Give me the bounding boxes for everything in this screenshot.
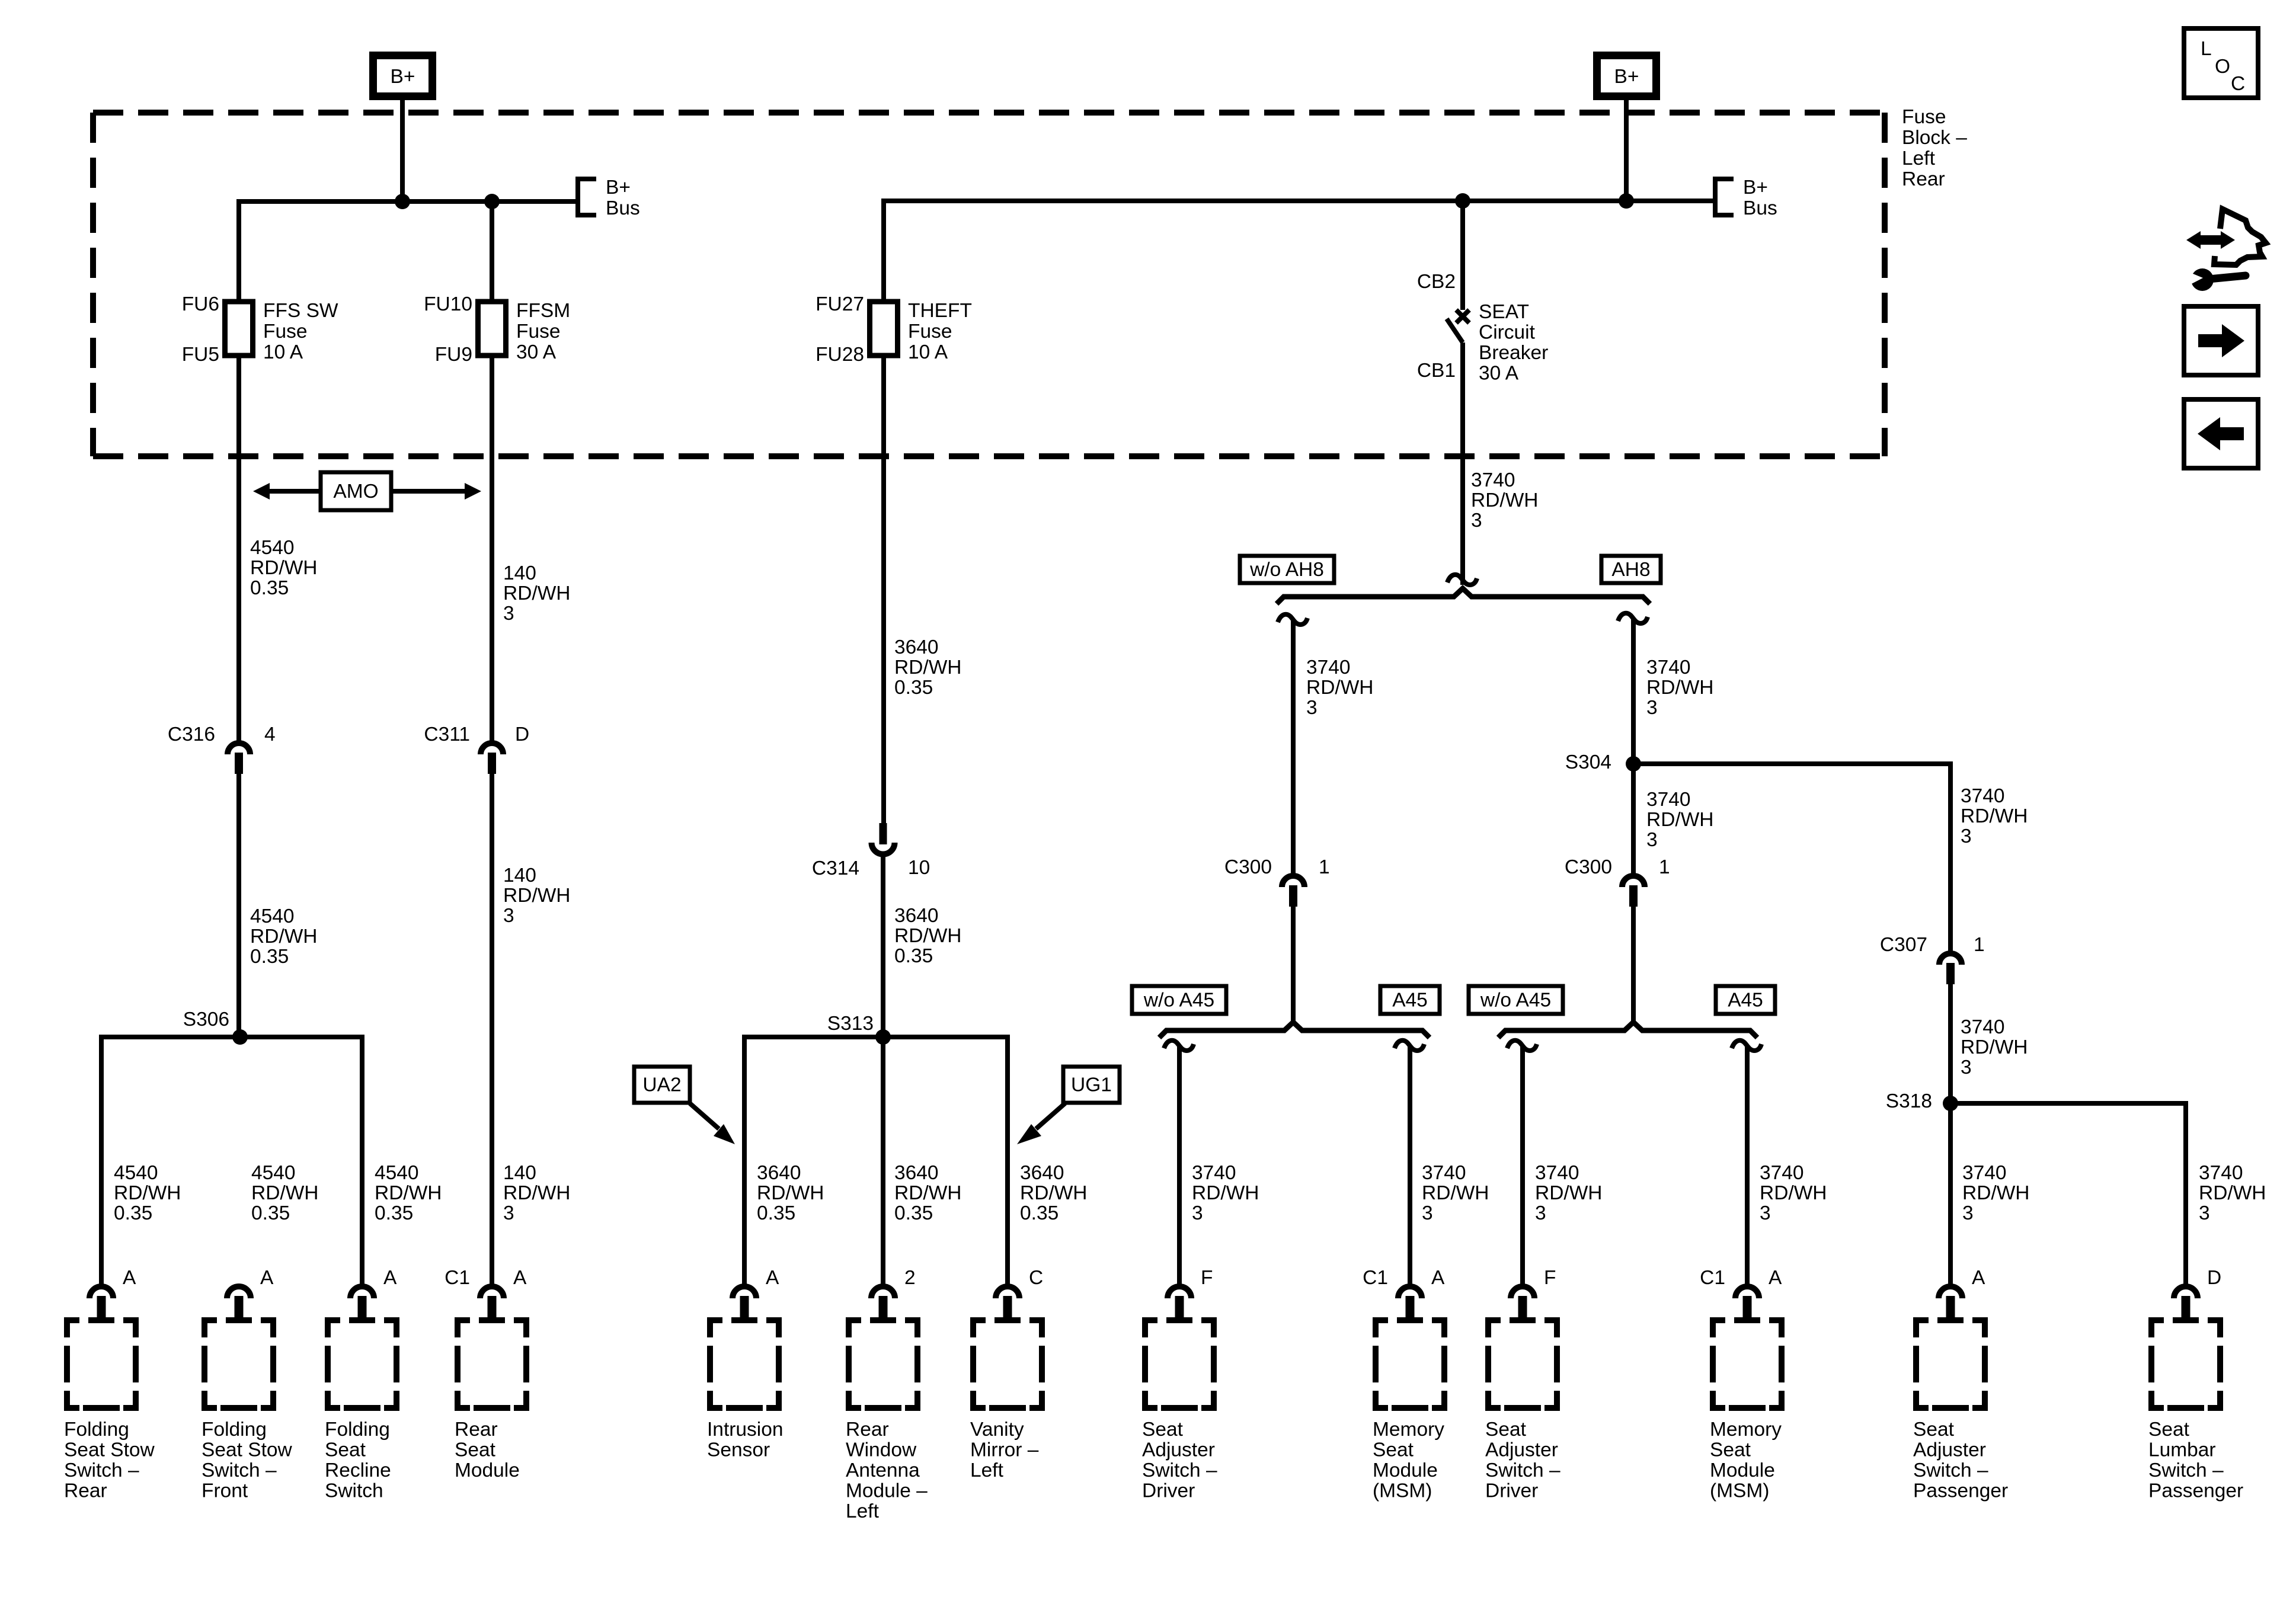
connector + Rear Window Antenna Module - Left bbox=[871, 1286, 895, 1298]
connector + Folding Seat Stow Switch - Front bbox=[227, 1286, 251, 1298]
svg-text:Seat: Seat bbox=[2148, 1419, 2190, 1441]
svg-text:Memory: Memory bbox=[1373, 1419, 1444, 1441]
svg-text:C316: C316 bbox=[168, 724, 215, 745]
connector C300 (w/o AH8) pin 1 bbox=[1282, 876, 1304, 887]
svg-text:A: A bbox=[513, 1267, 527, 1289]
svg-text:RD/WH: RD/WH bbox=[1471, 489, 1539, 511]
wire bus2 corner down to THEFT fuse bbox=[881, 199, 886, 302]
connector C311 pin D bbox=[481, 743, 503, 754]
svg-text:Passenger: Passenger bbox=[2148, 1480, 2243, 1502]
vehicle service icon (car outline, double arrow, wrench) bbox=[2214, 209, 2266, 265]
svg-text:140: 140 bbox=[503, 562, 536, 584]
connector C307 pin 1 bbox=[1939, 953, 1962, 965]
svg-text:S313: S313 bbox=[827, 1013, 874, 1035]
svg-text:F: F bbox=[1201, 1267, 1213, 1289]
svg-text:3: 3 bbox=[1535, 1202, 1546, 1224]
svg-text:C: C bbox=[1029, 1267, 1043, 1289]
svg-text:A: A bbox=[1972, 1267, 1985, 1289]
B+ Bus terminal 2 bbox=[1715, 179, 1734, 215]
AMO option box with arrows bbox=[253, 483, 270, 500]
svg-text:3740: 3740 bbox=[1306, 657, 1351, 678]
wire S313 left branch (intrusion sensor) bbox=[742, 1035, 747, 1286]
svg-text:Antenna: Antenna bbox=[846, 1459, 920, 1481]
svg-text:RD/WH: RD/WH bbox=[1961, 1036, 2028, 1058]
svg-text:10 A: 10 A bbox=[908, 341, 948, 363]
svg-text:CB1: CB1 bbox=[1417, 360, 1456, 382]
splice S304 bbox=[1626, 756, 1641, 772]
svg-text:RD/WH: RD/WH bbox=[251, 1182, 319, 1204]
svg-text:3: 3 bbox=[1646, 829, 1658, 851]
svg-text:A: A bbox=[766, 1267, 779, 1289]
svg-text:RD/WH: RD/WH bbox=[2199, 1182, 2266, 1204]
svg-text:FFSM: FFSM bbox=[516, 300, 570, 322]
svg-text:RD/WH: RD/WH bbox=[1306, 677, 1374, 699]
svg-text:3740: 3740 bbox=[1192, 1162, 1236, 1184]
svg-text:Seat Stow: Seat Stow bbox=[64, 1439, 155, 1461]
wire S313 right branch (vanity mirror) bbox=[1005, 1035, 1010, 1286]
B+ Bus terminal 1 bbox=[578, 179, 596, 215]
option brace A45 split driver bbox=[1159, 1022, 1430, 1038]
wire C300 left to A45 brace bbox=[1291, 905, 1296, 1025]
svg-text:Driver: Driver bbox=[1142, 1480, 1195, 1502]
svg-text:3740: 3740 bbox=[1471, 469, 1515, 491]
svg-text:3: 3 bbox=[1306, 697, 1318, 719]
connector C300 (AH8) pin 1 bbox=[1622, 876, 1645, 887]
svg-text:A: A bbox=[260, 1267, 274, 1289]
svg-text:140: 140 bbox=[503, 865, 536, 886]
svg-text:4540: 4540 bbox=[250, 537, 295, 559]
svg-text:4540: 4540 bbox=[375, 1162, 419, 1184]
svg-text:RD/WH: RD/WH bbox=[894, 1182, 962, 1204]
svg-text:w/o A45: w/o A45 bbox=[1480, 990, 1551, 1012]
svg-text:A45: A45 bbox=[1728, 990, 1763, 1012]
svg-text:0.35: 0.35 bbox=[894, 677, 933, 699]
svg-text:1: 1 bbox=[1659, 856, 1670, 878]
svg-text:Seat: Seat bbox=[325, 1439, 366, 1461]
svg-text:Front: Front bbox=[202, 1480, 248, 1502]
svg-text:0.35: 0.35 bbox=[114, 1202, 152, 1224]
svg-text:Breaker: Breaker bbox=[1479, 342, 1548, 364]
svg-text:Circuit: Circuit bbox=[1479, 322, 1536, 344]
svg-text:10 A: 10 A bbox=[263, 341, 303, 363]
svg-text:RD/WH: RD/WH bbox=[375, 1182, 442, 1204]
svg-text:CB2: CB2 bbox=[1417, 271, 1456, 293]
junction dot B+1/bus bbox=[395, 194, 410, 209]
svg-text:A45: A45 bbox=[1392, 990, 1428, 1012]
svg-text:0.35: 0.35 bbox=[757, 1202, 795, 1224]
svg-text:Module –: Module – bbox=[846, 1480, 928, 1502]
connector + Seat Adjuster Switch - Driver 2 bbox=[1511, 1286, 1534, 1298]
svg-text:S304: S304 bbox=[1565, 751, 1611, 773]
wire break squiggle w/o AH8 branch bbox=[1278, 614, 1307, 625]
svg-text:Fuse: Fuse bbox=[1902, 106, 1946, 128]
svg-text:RD/WH: RD/WH bbox=[1962, 1182, 2030, 1204]
svg-text:3640: 3640 bbox=[894, 905, 939, 927]
svg-text:RD/WH: RD/WH bbox=[503, 582, 571, 604]
svg-text:3: 3 bbox=[1471, 510, 1482, 532]
wire bus1 drop to FU10 bbox=[490, 201, 494, 302]
wire bus2 to circuit breaker contact bbox=[1460, 201, 1465, 310]
svg-text:w/o AH8: w/o AH8 bbox=[1249, 559, 1324, 581]
svg-text:Module: Module bbox=[1710, 1459, 1775, 1481]
svg-text:0.35: 0.35 bbox=[894, 1202, 933, 1224]
wire w/o AH8 branch down to C300 bbox=[1291, 619, 1296, 873]
svg-text:C1: C1 bbox=[445, 1267, 470, 1289]
svg-text:Left: Left bbox=[970, 1459, 1004, 1481]
svg-text:O: O bbox=[2215, 56, 2230, 78]
svg-text:RD/WH: RD/WH bbox=[1646, 809, 1714, 831]
svg-text:3: 3 bbox=[503, 603, 514, 625]
svg-text:RD/WH: RD/WH bbox=[250, 926, 318, 948]
svg-text:3740: 3740 bbox=[1646, 657, 1691, 678]
svg-text:L: L bbox=[2201, 38, 2212, 60]
svg-text:Rear: Rear bbox=[64, 1480, 107, 1502]
svg-text:RD/WH: RD/WH bbox=[894, 657, 962, 678]
wire C307 to S318 bbox=[1948, 982, 1953, 1103]
wire break squiggle above AH8 brace bbox=[1447, 575, 1477, 585]
LOC legend box bbox=[2184, 28, 2258, 98]
svg-text:0.35: 0.35 bbox=[375, 1202, 413, 1224]
wire break squiggle AH8 branch bbox=[1618, 613, 1648, 623]
svg-text:Fuse: Fuse bbox=[516, 321, 560, 343]
wire seat adjuster driver 2 down bbox=[1520, 1046, 1525, 1286]
svg-text:Module: Module bbox=[455, 1459, 520, 1481]
svg-text:(MSM): (MSM) bbox=[1373, 1480, 1432, 1502]
svg-text:RD/WH: RD/WH bbox=[114, 1182, 181, 1204]
svg-text:Adjuster: Adjuster bbox=[1913, 1439, 1986, 1461]
svg-text:D: D bbox=[2207, 1267, 2221, 1289]
svg-text:Recline: Recline bbox=[325, 1459, 391, 1481]
svg-text:RD/WH: RD/WH bbox=[1422, 1182, 1489, 1204]
svg-text:F: F bbox=[1544, 1267, 1556, 1289]
svg-text:1: 1 bbox=[1974, 934, 1985, 956]
junction dot circuit breaker drop bbox=[1455, 193, 1470, 209]
svg-text:A: A bbox=[383, 1267, 397, 1289]
svg-text:0.35: 0.35 bbox=[250, 577, 289, 599]
wire break squiggle w/o A45 driver bbox=[1164, 1041, 1194, 1051]
connector C1 + Memory Seat Module (MSM) 2 bbox=[1735, 1286, 1759, 1298]
svg-text:0.35: 0.35 bbox=[250, 946, 289, 968]
fuse FU27/FU28 THEFT 10A bbox=[870, 302, 898, 356]
svg-text:FU27: FU27 bbox=[816, 293, 864, 315]
wire FU10 fuse to C311 bbox=[490, 356, 494, 741]
connector + Seat Adjuster Switch - Passenger bbox=[1939, 1286, 1962, 1298]
svg-text:C300: C300 bbox=[1565, 856, 1612, 878]
svg-text:3640: 3640 bbox=[894, 636, 939, 658]
junction dot FFSM fuse drop bbox=[484, 194, 500, 209]
svg-text:4540: 4540 bbox=[251, 1162, 296, 1184]
svg-text:w/o A45: w/o A45 bbox=[1143, 990, 1214, 1012]
svg-text:B+: B+ bbox=[1743, 177, 1768, 199]
wire S304 down to C300 right bbox=[1631, 764, 1636, 873]
svg-text:3640: 3640 bbox=[894, 1162, 939, 1184]
svg-text:A: A bbox=[1431, 1267, 1445, 1289]
svg-text:AH8: AH8 bbox=[1611, 559, 1650, 581]
connector + Seat Lumbar Switch - Passenger bbox=[2174, 1286, 2198, 1298]
svg-text:FU5: FU5 bbox=[182, 344, 219, 366]
connector + Intrusion Sensor bbox=[733, 1286, 756, 1298]
svg-text:S306: S306 bbox=[183, 1009, 229, 1030]
svg-text:3640: 3640 bbox=[1020, 1162, 1064, 1184]
svg-text:Bus: Bus bbox=[1743, 197, 1777, 219]
svg-text:10: 10 bbox=[908, 857, 930, 879]
svg-text:C314: C314 bbox=[812, 857, 859, 879]
svg-text:C1: C1 bbox=[1700, 1267, 1725, 1289]
svg-text:Seat: Seat bbox=[1710, 1439, 1751, 1461]
svg-text:RD/WH: RD/WH bbox=[1961, 805, 2028, 827]
wire C316 to S306 bbox=[236, 772, 241, 1037]
svg-text:RD/WH: RD/WH bbox=[503, 885, 571, 907]
option box w/o AH8 bbox=[1240, 556, 1334, 583]
wire AH8 branch down to S304 bbox=[1631, 618, 1636, 764]
forward arrow box bbox=[2184, 306, 2258, 375]
option box w/o A45 (driver 2) bbox=[1469, 986, 1563, 1014]
option brace A45 split driver 2 bbox=[1498, 1022, 1757, 1038]
wire break squiggle w/o A45 driver 2 bbox=[1507, 1041, 1537, 1051]
svg-text:Rear: Rear bbox=[1902, 168, 1945, 190]
splice S306 bbox=[232, 1029, 248, 1045]
wire S306 horizontal bbox=[101, 1035, 362, 1039]
svg-text:Adjuster: Adjuster bbox=[1142, 1439, 1215, 1461]
svg-text:2: 2 bbox=[904, 1267, 916, 1289]
svg-text:Folding: Folding bbox=[325, 1419, 390, 1441]
svg-text:Module: Module bbox=[1373, 1459, 1438, 1481]
wire S306 left branch down bbox=[99, 1035, 104, 1286]
svg-text:B+: B+ bbox=[1614, 66, 1639, 88]
wire memory seat module down bbox=[1408, 1046, 1412, 1286]
svg-text:B+: B+ bbox=[606, 177, 631, 199]
svg-text:4540: 4540 bbox=[114, 1162, 158, 1184]
wire circuit breaker down to option brace bbox=[1460, 343, 1465, 585]
svg-text:3: 3 bbox=[503, 1202, 514, 1224]
svg-text:3: 3 bbox=[503, 905, 514, 927]
svg-text:FU9: FU9 bbox=[435, 344, 472, 366]
svg-text:Switch –: Switch – bbox=[64, 1459, 139, 1481]
svg-text:Left: Left bbox=[1902, 148, 1936, 169]
svg-text:Bus: Bus bbox=[606, 197, 640, 219]
junction dot B+2/bus bbox=[1619, 193, 1634, 209]
connector + Seat Adjuster Switch - Driver bbox=[1168, 1286, 1191, 1298]
fuse FU6/FU5 FFS SW 10A bbox=[225, 302, 253, 356]
svg-text:Mirror –: Mirror – bbox=[970, 1439, 1039, 1461]
wire C311 to Rear Seat Module bbox=[490, 772, 494, 1286]
svg-text:3: 3 bbox=[1422, 1202, 1433, 1224]
svg-text:Switch –: Switch – bbox=[2148, 1459, 2224, 1481]
svg-text:30 A: 30 A bbox=[516, 341, 557, 363]
svg-text:Left: Left bbox=[846, 1500, 880, 1522]
svg-text:1: 1 bbox=[1319, 856, 1330, 878]
svg-text:Seat: Seat bbox=[1373, 1439, 1414, 1461]
svg-text:RD/WH: RD/WH bbox=[1192, 1182, 1259, 1204]
svg-text:Rear: Rear bbox=[846, 1419, 889, 1441]
option box AH8 bbox=[1601, 556, 1661, 583]
svg-text:Switch –: Switch – bbox=[202, 1459, 277, 1481]
svg-text:Seat: Seat bbox=[1485, 1419, 1527, 1441]
svg-text:FU10: FU10 bbox=[424, 293, 472, 315]
svg-text:FU6: FU6 bbox=[182, 293, 219, 315]
connector C316 pin 4 bbox=[228, 743, 250, 754]
svg-text:Lumbar: Lumbar bbox=[2148, 1439, 2216, 1461]
svg-text:Folding: Folding bbox=[64, 1419, 129, 1441]
wire B+2 to bus bbox=[1624, 97, 1629, 203]
B+ terminal 1 bbox=[373, 56, 433, 97]
wire break squiggle A45 driver 2 bbox=[1732, 1041, 1761, 1051]
svg-text:3: 3 bbox=[1961, 1057, 1972, 1078]
svg-text:4: 4 bbox=[264, 724, 276, 745]
svg-text:C: C bbox=[2231, 73, 2245, 95]
wire S313 horizontal bbox=[744, 1035, 1008, 1039]
option box A45 (driver 2) bbox=[1716, 986, 1775, 1014]
svg-text:Fuse: Fuse bbox=[908, 321, 952, 343]
svg-text:3740: 3740 bbox=[1760, 1162, 1804, 1184]
svg-text:D: D bbox=[515, 724, 529, 745]
svg-text:RD/WH: RD/WH bbox=[894, 925, 962, 947]
svg-text:C1: C1 bbox=[1363, 1267, 1388, 1289]
svg-text:Seat: Seat bbox=[1142, 1419, 1184, 1441]
svg-text:Block –: Block – bbox=[1902, 127, 1967, 149]
UA2 callout box and arrow bbox=[634, 1067, 690, 1103]
svg-text:Memory: Memory bbox=[1710, 1419, 1782, 1441]
wire bus 2 bbox=[884, 199, 1715, 203]
svg-text:3: 3 bbox=[1961, 825, 1972, 847]
svg-text:Switch –: Switch – bbox=[1485, 1459, 1560, 1481]
svg-text:A: A bbox=[1769, 1267, 1782, 1289]
svg-text:4540: 4540 bbox=[250, 905, 295, 927]
svg-text:RD/WH: RD/WH bbox=[1535, 1182, 1603, 1204]
svg-text:Driver: Driver bbox=[1485, 1480, 1538, 1502]
svg-text:30 A: 30 A bbox=[1479, 363, 1519, 385]
svg-text:3: 3 bbox=[2199, 1202, 2210, 1224]
wire B+1 to bus bbox=[400, 97, 405, 204]
wire break squiggle A45 driver bbox=[1395, 1041, 1424, 1051]
svg-text:RD/WH: RD/WH bbox=[503, 1182, 571, 1204]
wire S318 right branch bbox=[1950, 1101, 2186, 1106]
svg-text:Seat Stow: Seat Stow bbox=[202, 1439, 293, 1461]
svg-text:3740: 3740 bbox=[1961, 785, 2005, 807]
svg-text:3740: 3740 bbox=[1535, 1162, 1579, 1184]
circuit breaker CB2/CB1 SEAT 30A bbox=[1456, 310, 1469, 323]
svg-text:3740: 3740 bbox=[1646, 789, 1691, 811]
wire memory seat module 2 down bbox=[1745, 1046, 1750, 1286]
svg-text:FU28: FU28 bbox=[816, 344, 864, 366]
svg-text:UA2: UA2 bbox=[642, 1074, 681, 1096]
svg-text:RD/WH: RD/WH bbox=[1646, 677, 1714, 699]
svg-text:UG1: UG1 bbox=[1071, 1074, 1112, 1096]
svg-text:C311: C311 bbox=[424, 724, 470, 745]
svg-text:Rear: Rear bbox=[455, 1419, 498, 1441]
B+ terminal 2 bbox=[1597, 56, 1657, 97]
svg-text:Sensor: Sensor bbox=[707, 1439, 770, 1461]
svg-text:3740: 3740 bbox=[1422, 1162, 1466, 1184]
svg-text:RD/WH: RD/WH bbox=[1760, 1182, 1827, 1204]
svg-text:Switch: Switch bbox=[325, 1480, 383, 1502]
connector + Folding Seat Stow Switch - Rear bbox=[89, 1286, 113, 1298]
svg-text:0.35: 0.35 bbox=[251, 1202, 290, 1224]
connector + Folding Seat Recline Switch bbox=[350, 1286, 374, 1298]
wire seat adjuster driver down bbox=[1177, 1046, 1182, 1286]
wire C300 right to A45 brace bbox=[1631, 905, 1636, 1025]
back arrow box bbox=[2184, 399, 2258, 468]
svg-text:THEFT: THEFT bbox=[908, 300, 972, 322]
wire C314 to S313 bbox=[881, 857, 885, 1037]
svg-text:Window: Window bbox=[846, 1439, 917, 1461]
wire S306 right branch down bbox=[360, 1035, 364, 1286]
svg-text:3: 3 bbox=[1646, 697, 1658, 719]
svg-text:Seat: Seat bbox=[1913, 1419, 1955, 1441]
svg-text:RD/WH: RD/WH bbox=[757, 1182, 824, 1204]
fuse block dashed outline bbox=[93, 110, 1885, 116]
connector C1 + Rear Seat Module bbox=[480, 1286, 504, 1298]
svg-text:Fuse: Fuse bbox=[263, 321, 307, 343]
wire THEFT fuse to C314 bbox=[881, 356, 886, 824]
svg-text:AMO: AMO bbox=[333, 481, 378, 502]
svg-text:Intrusion: Intrusion bbox=[707, 1419, 784, 1441]
option brace AH8 split bbox=[1277, 588, 1650, 604]
svg-text:C307: C307 bbox=[1880, 934, 1927, 956]
connector C1 + Memory Seat Module (MSM) bbox=[1398, 1286, 1422, 1298]
svg-text:FFS SW: FFS SW bbox=[263, 300, 338, 322]
svg-text:3740: 3740 bbox=[1961, 1016, 2005, 1038]
svg-text:Vanity: Vanity bbox=[970, 1419, 1024, 1441]
connector C314 pin 10 bbox=[880, 823, 887, 844]
svg-text:3640: 3640 bbox=[757, 1162, 801, 1184]
wire bus1 corner down to FU6 bbox=[236, 199, 241, 302]
option box A45 (driver) bbox=[1380, 986, 1440, 1014]
splice S318 bbox=[1943, 1096, 1958, 1111]
wire bus 1 bbox=[236, 199, 578, 204]
svg-text:Adjuster: Adjuster bbox=[1485, 1439, 1558, 1461]
svg-text:SEAT: SEAT bbox=[1479, 301, 1529, 323]
svg-text:3740: 3740 bbox=[2199, 1162, 2243, 1184]
wire S304 to right branch corner bbox=[1633, 761, 1950, 766]
svg-text:C300: C300 bbox=[1224, 856, 1272, 878]
svg-text:3740: 3740 bbox=[1962, 1162, 2007, 1184]
fuse FU10/FU9 FFSM 30A bbox=[478, 302, 506, 356]
wire S313 center branch (antenna module) bbox=[881, 1037, 885, 1286]
svg-text:B+: B+ bbox=[391, 66, 415, 88]
svg-text:RD/WH: RD/WH bbox=[250, 557, 318, 579]
svg-text:0.35: 0.35 bbox=[894, 945, 933, 967]
svg-text:140: 140 bbox=[503, 1162, 536, 1184]
svg-text:3: 3 bbox=[1760, 1202, 1771, 1224]
svg-text:Switch –: Switch – bbox=[1913, 1459, 1988, 1481]
svg-text:(MSM): (MSM) bbox=[1710, 1480, 1769, 1502]
svg-text:0.35: 0.35 bbox=[1020, 1202, 1059, 1224]
splice S313 bbox=[875, 1029, 891, 1045]
UG1 callout box and arrow bbox=[1063, 1067, 1120, 1103]
wire FU6 fuse to C316 bbox=[236, 356, 241, 741]
svg-text:A: A bbox=[123, 1267, 136, 1289]
wire S318 down (seat adjuster passenger) bbox=[1948, 1103, 1953, 1286]
connector + Vanity Mirror - Left bbox=[996, 1286, 1019, 1298]
svg-text:Folding: Folding bbox=[202, 1419, 267, 1441]
svg-text:3: 3 bbox=[1962, 1202, 1974, 1224]
svg-text:RD/WH: RD/WH bbox=[1020, 1182, 1088, 1204]
svg-text:3: 3 bbox=[1192, 1202, 1203, 1224]
svg-text:Switch –: Switch – bbox=[1142, 1459, 1217, 1481]
svg-text:Passenger: Passenger bbox=[1913, 1480, 2008, 1502]
svg-text:S318: S318 bbox=[1886, 1090, 1932, 1112]
option box w/o A45 (driver) bbox=[1132, 986, 1226, 1014]
svg-text:Seat: Seat bbox=[455, 1439, 496, 1461]
